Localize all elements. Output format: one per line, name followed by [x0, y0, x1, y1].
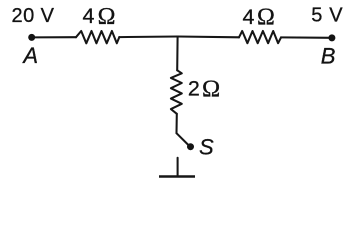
wire R1 to junction [119, 35, 177, 38]
svg-text:2: 2 [188, 76, 200, 100]
svg-text:Ω: Ω [257, 4, 275, 30]
svg-text:A: A [21, 43, 38, 68]
svg-text:4: 4 [243, 5, 255, 29]
svg-text:S: S [199, 135, 214, 160]
switch S contact dot [187, 143, 194, 150]
svg-text:4: 4 [83, 4, 95, 28]
ground stub wire [177, 158, 179, 176]
svg-text:Ω: Ω [98, 4, 116, 30]
node A terminal dot [28, 34, 35, 41]
wire node A to resistor R1 [32, 36, 76, 38]
ground bar [159, 175, 195, 178]
node B terminal dot [328, 34, 335, 41]
switch S arm (open blade) [177, 133, 189, 144]
svg-text:Ω: Ω [202, 75, 220, 102]
resistor R1 4 ohm [76, 31, 119, 43]
svg-text:20 V: 20 V [12, 5, 55, 27]
resistor R3 2 ohm [171, 70, 182, 114]
wire junction to resistor R2 [178, 35, 239, 38]
wire R3 to switch arm [175, 114, 177, 133]
wire junction down to resistor R3 [176, 37, 178, 71]
resistor R2 4 ohm [239, 31, 281, 43]
wire R2 to node B [281, 36, 332, 38]
svg-text:5 V: 5 V [311, 5, 343, 27]
svg-text:B: B [321, 43, 336, 68]
